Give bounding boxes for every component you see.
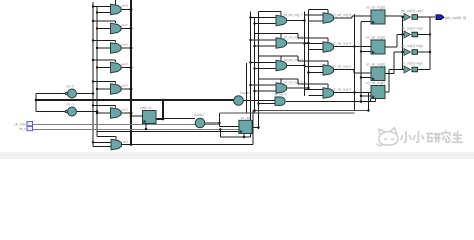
mux B3	[276, 60, 287, 71]
wire: mux A5 input stubs	[93, 82, 116, 90]
wire: mux B1 output	[287, 20, 305, 22]
wire: mux B1 inputs	[251, 18, 277, 24]
wire: left feed bus vertical line A (net cnt~next, x=93)	[92, 2, 94, 146]
bottom gray bar	[0, 152, 474, 159]
wire: Equal1 output	[205, 122, 220, 124]
junction dots middle cluster	[249, 16, 255, 92]
wire: mux A2 input stubs	[93, 21, 116, 29]
output buffer E2	[404, 31, 418, 38]
wire: clk branch riser x220.3	[219, 129, 221, 137]
mux C3	[323, 65, 334, 76]
wire: col D clock riser	[360, 22, 362, 102]
svg-text:xd_sel_reg~4: xd_sel_reg~4	[332, 41, 351, 45]
svg-text:cnt~5: cnt~5	[122, 63, 129, 66]
mux A5	[111, 84, 122, 95]
node: junction Equal1/riser	[218, 122, 220, 124]
wire: mux A1 output	[121, 9, 131, 11]
wire: mux B3 output	[287, 65, 305, 67]
wire: buffer E4 input	[403, 69, 405, 71]
junction dots buffer bus	[401, 16, 403, 53]
input port rst_n	[27, 126, 33, 130]
wire: left feed bus vertical line B (x=97)	[96, 6, 98, 137]
comparator Equal1	[195, 118, 205, 128]
wire: mux A6 output	[121, 112, 131, 114]
wire: left connector vertical (x=36)	[35, 94, 37, 112]
wire: feedback trunk y110.5	[255, 110, 369, 112]
svg-text:jsh_out[3]~reg0: jsh_out[3]~reg0	[400, 9, 423, 13]
wire: rst net horizontal	[33, 128, 239, 130]
wire: reg D3 output to buffer E3	[385, 52, 403, 74]
wire: mux B2 output	[287, 42, 309, 44]
node: junction ena trunk	[360, 100, 363, 103]
register xd_sel_reg[0] (D4)	[371, 86, 385, 100]
output buffer E3	[404, 49, 418, 56]
svg-text:cnt~1: cnt~1	[66, 103, 74, 107]
wire: reg D4 output to buffer E4	[385, 70, 403, 93]
wire: reg D2 output to buffer E2	[385, 35, 403, 48]
wire: mux C4 select corner	[298, 79, 328, 88]
wire: output port bus x430	[429, 17, 431, 70]
svg-text:xd_sel_reg~3: xd_sel_reg~3	[284, 58, 303, 62]
svg-text:jsh_out[1]~reg0: jsh_out[1]~reg0	[400, 44, 423, 48]
wire: reg2 Q output	[252, 127, 258, 129]
wire: feedback trunk y113	[220, 112, 355, 114]
wire: buffer E3 output	[418, 51, 431, 53]
mux A7	[111, 139, 122, 150]
svg-text:clk_50m: clk_50m	[14, 122, 26, 126]
node: reg2 clock junction	[243, 136, 245, 138]
wire: mux B4 output	[287, 87, 309, 89]
wire: mux B2 inputs	[251, 40, 277, 46]
wire: middle cluster vertical x254.5	[254, 18, 256, 114]
wire: adder c1 input	[36, 93, 66, 95]
wire: col C input bus x308.5	[308, 10, 310, 91]
svg-text:cnt~8: cnt~8	[122, 5, 129, 8]
svg-text:jsh_out[2]~reg0: jsh_out[2]~reg0	[400, 27, 423, 31]
wire: adder c1 output into bus x93	[77, 93, 93, 95]
wire: mux A5 output	[121, 88, 131, 90]
wire: riser from trunk into reg2 D	[220, 113, 239, 127]
adder circle c1	[65, 89, 76, 98]
output buffer E1	[404, 14, 418, 21]
wire: buffer E3 input	[403, 51, 405, 53]
wire: reg2 clock stub	[243, 134, 245, 138]
wire: buffer input bus x400	[402, 16, 404, 70]
mux B4	[276, 83, 287, 94]
comparator Equal0	[234, 96, 244, 106]
wire: mux C2 inputs	[305, 44, 324, 50]
wire: increment feedback trunk (cnt bus, y=100)	[36, 99, 234, 101]
wire: mux A1 input stubs	[93, 7, 111, 13]
wire: buffer E1 output to port	[418, 16, 431, 18]
mux B2	[276, 38, 287, 49]
mux A4	[111, 62, 122, 72]
junction dots clock riser	[360, 50, 362, 97]
svg-text:xd_sel_reg~2: xd_sel_reg~2	[332, 64, 351, 68]
svg-text:jsh_out[0]~reg0: jsh_out[0]~reg0	[400, 62, 423, 66]
wire: mux C3 output to reg D3	[334, 70, 372, 74]
wire: mux A7 input stubs	[93, 142, 111, 146]
wire: adder c2 input	[36, 111, 66, 113]
svg-text:xd_sel_reg[3]: xd_sel_reg[3]	[366, 6, 385, 10]
svg-text:cnt~0: cnt~0	[66, 85, 74, 89]
mux A3	[111, 43, 122, 54]
mux C1	[323, 13, 334, 24]
wire: mux B1 select corner	[259, 12, 282, 16]
wire: buffer E2 input	[403, 34, 405, 36]
wire: feedback riser x368.5	[368, 93, 370, 111]
wire: mux B2 select corner	[255, 34, 299, 38]
wire: mux C1 output to reg D1	[334, 16, 372, 18]
wire: mux A3 output	[121, 47, 131, 49]
mux C2	[323, 42, 334, 53]
svg-text:cnt~4: cnt~4	[122, 85, 129, 88]
wire: mux C1 select corner	[309, 10, 329, 13]
wire: mux C4 output to reg D4	[334, 92, 372, 94]
wire: reg D clock stubs	[361, 22, 371, 97]
wire: mux C3 select corner	[298, 56, 328, 65]
svg-text:jsh_out[3..0]: jsh_out[3..0]	[445, 16, 467, 20]
wire: and gate output trunk to right riser	[286, 101, 376, 103]
node: junction feedback	[253, 109, 256, 112]
node: junction Q branch	[162, 118, 165, 121]
wire: mux A7 select stub	[97, 137, 116, 140]
wire: mux B3 inputs	[251, 63, 277, 69]
wire: clk net horizontal	[33, 124, 219, 126]
svg-text:cnt~7: cnt~7	[122, 24, 129, 27]
wire: mux C3 inputs	[305, 67, 324, 73]
register xd_sel_reg[3] (D1)	[371, 10, 385, 25]
junction dots output bus	[429, 33, 431, 53]
register cnt_reg (reg1)	[143, 111, 157, 124]
wire: feedback riser x351	[354, 14, 356, 111]
wire: middle cluster vertical x250.5	[250, 12, 252, 138]
node: reg2 Q junction	[257, 126, 259, 128]
svg-text:Equal1: Equal1	[194, 113, 204, 117]
svg-text:cnt~6: cnt~6	[122, 44, 129, 47]
mux B1	[276, 15, 287, 26]
watermark text 小小研究生	[401, 131, 463, 142]
wire: mux C2 output to reg D2	[334, 46, 372, 48]
reg D4 ena tab	[371, 99, 376, 102]
input port clk_50m	[27, 122, 33, 126]
node: junction reg1 D	[130, 115, 133, 118]
svg-text:xd_sel_reg~7: xd_sel_reg~7	[284, 13, 303, 17]
adder circle c2	[65, 107, 76, 116]
svg-text:xd_sel_reg[2]: xd_sel_reg[2]	[366, 36, 385, 40]
junction dots on left feed buses	[92, 5, 98, 143]
wire: middle cluster vertical x258.5	[258, 12, 260, 130]
wire: reg1 D input	[131, 115, 143, 117]
wire: and gate second input	[259, 103, 276, 105]
output buffer E4	[404, 66, 418, 73]
node: junction trunk/left connector	[35, 99, 38, 102]
wire: mux C4 inputs	[305, 90, 324, 96]
svg-text:xd_reg: xd_reg	[241, 116, 251, 120]
wire: mux A6 input stubs	[93, 106, 116, 114]
svg-text:xd_sel_reg~0: xd_sel_reg~0	[332, 87, 351, 91]
svg-text:xd_sel_reg~6: xd_sel_reg~6	[332, 13, 351, 17]
wire: middle cluster vertical x246.5	[246, 63, 248, 113]
wire: col C input bus x304.5	[304, 12, 306, 97]
node: junction c2 output	[96, 110, 99, 113]
wire: mux output collector vertical bus (x=131)	[130, 0, 132, 145]
wire: Equal0 output to and gate	[244, 100, 276, 102]
wire: buffer E2 output	[418, 34, 431, 36]
junction dots col C buses	[303, 19, 310, 89]
svg-text:cnt[3..0]: cnt[3..0]	[140, 106, 151, 110]
svg-text:xd_sel_reg[0]: xd_sel_reg[0]	[366, 81, 385, 85]
wire: mux A2 output	[121, 28, 131, 30]
mux A2	[111, 23, 122, 34]
wire: mux C2 select corner	[298, 34, 328, 42]
wire: mux B4 inputs	[251, 85, 277, 91]
wire: bottom run y131.5	[97, 131, 239, 133]
svg-text:cnt~2: cnt~2	[123, 141, 130, 144]
mux A1	[111, 4, 122, 15]
wire: Q to Equal1	[163, 118, 195, 120]
junction dots on mux output bus	[130, 8, 133, 114]
wire: reg1 clock stub	[145, 124, 147, 130]
and gate xd_sel~0	[275, 97, 285, 105]
wire: mux A4 output	[121, 67, 131, 69]
wire: output port stub	[430, 16, 435, 18]
svg-text:xd_sel_reg[1]: xd_sel_reg[1]	[366, 63, 385, 67]
wire: reg1 Q output and riser to cnt trunk	[157, 100, 164, 119]
wire: adder c2 output into bus x97	[77, 111, 97, 113]
svg-text:Equal0: Equal0	[240, 91, 250, 95]
watermark cat icon	[377, 128, 398, 146]
wire: buffer E1 input	[403, 16, 405, 18]
svg-text:rst_n: rst_n	[19, 127, 26, 131]
wire: mux B3 select corner	[259, 56, 299, 60]
mux C4	[323, 88, 334, 99]
wire: mux B4 select corner	[259, 79, 299, 83]
node: clk tap junction	[219, 128, 221, 130]
mux A6	[111, 108, 122, 119]
node: junction reg1 Q riser	[162, 99, 165, 102]
wire: buffer E4 output	[418, 69, 431, 71]
wire: clock bottom run y137	[220, 136, 250, 138]
wire: mux C1 inputs	[305, 15, 324, 21]
wire: mux A3 input stubs	[93, 41, 116, 49]
output port jsh_out[3..0]	[436, 15, 444, 20]
register xd_reg (reg2)	[239, 120, 252, 133]
wire: mux A1 select stub from top edge	[115, 0, 117, 5]
register xd_sel_reg[1] (D3)	[371, 67, 385, 81]
wire: reg D1 output	[385, 15, 403, 17]
wire: mux A7 output to middle bus	[122, 111, 254, 145]
register xd_sel_reg[2] (D2)	[371, 40, 385, 55]
node: junction c1 output	[92, 92, 95, 95]
wire: mux A4 input stubs	[93, 60, 116, 68]
svg-text:cnt~3: cnt~3	[122, 109, 129, 112]
